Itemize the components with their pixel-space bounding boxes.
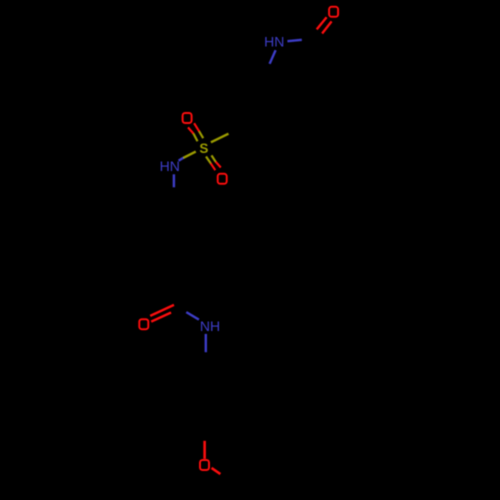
svg-text:HN: HN — [160, 158, 180, 174]
S=O bottom double bond line 1 olive half — [206, 157, 211, 164]
wire N-C(=O) blue half-bond — [287, 40, 301, 41]
amide carbonyl O label — [139, 319, 148, 329]
acetyl C=O double bond line 1 — [317, 17, 327, 29]
wire N-C(aryl) blue half-bond down — [205, 334, 207, 352]
S=O top double bond line B olive half — [199, 131, 203, 138]
wire S-N blue half near N — [179, 158, 184, 161]
wire N-C blue half-bond down — [173, 174, 175, 187]
S=O top double bond line A olive half — [194, 134, 198, 142]
wire S-N olive half-bond down-left — [183, 152, 196, 158]
sulfonyl top O label — [183, 113, 192, 123]
wire C-N blue half-bond — [186, 312, 199, 320]
svg-text:HN: HN — [264, 34, 284, 50]
acetyl carbonyl O label — [329, 7, 338, 17]
wire O-CH3 red half-bond down-right — [212, 468, 221, 474]
S=O bottom double bond line 2 red half — [216, 162, 221, 168]
sulfonyl bottom O label — [218, 174, 227, 184]
amide C=O double bond lower line — [151, 313, 171, 322]
svg-text:NH: NH — [200, 318, 220, 334]
acetyl C=O double bond line 2 — [322, 21, 332, 33]
S=O top double bond line A red half — [188, 127, 194, 133]
wire N-CH blue half-bond down-left — [270, 50, 276, 64]
wire S-C olive half-bond up-right — [211, 134, 229, 143]
amide C=O double bond upper line — [150, 305, 174, 316]
S=O bottom double bond line 1 red half — [211, 163, 216, 170]
wire C(aryl)-O red half-bond vertical — [203, 441, 206, 459]
svg-text:S: S — [199, 141, 208, 156]
methoxy O label — [200, 460, 209, 470]
S=O top double bond line B red half — [194, 123, 199, 131]
S=O bottom double bond line 2 olive half — [212, 155, 216, 161]
